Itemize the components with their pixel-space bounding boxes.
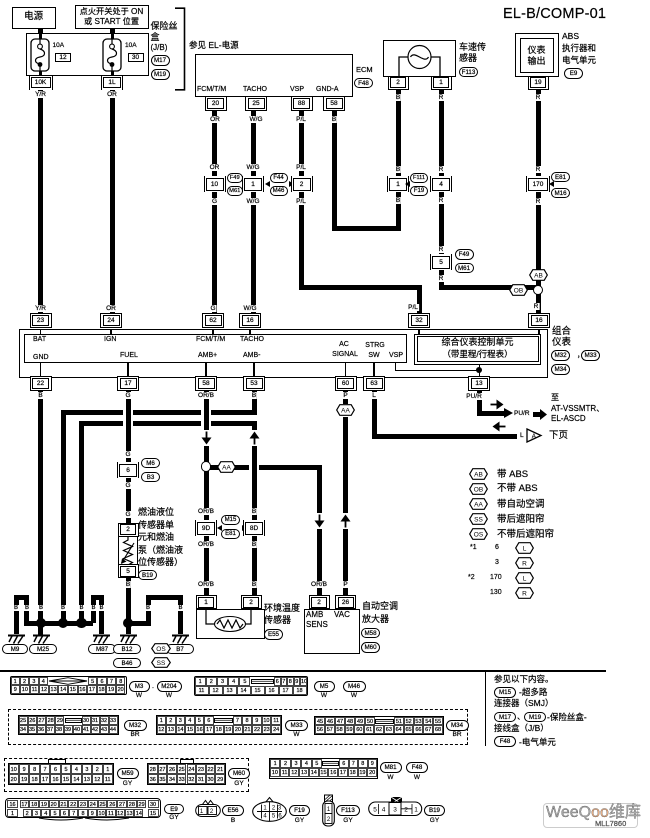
svg-text:5: 5: [373, 807, 377, 814]
connector grid M81/F48: [269, 758, 378, 779]
wire label W/G near meter: [243, 305, 258, 312]
connector bubble F113: [459, 67, 478, 78]
meter pin 23: [30, 313, 52, 328]
connector F113: [322, 794, 335, 827]
connector bubble M32: [124, 720, 147, 731]
label 保险丝盒(J/B): [151, 22, 178, 32]
wire OR fuse30 to meter pin24: [110, 89, 115, 314]
connector bubble M19 ref: [524, 712, 546, 723]
variant marker legend OB: [469, 483, 488, 495]
svg-text:AA: AA: [341, 407, 350, 414]
ambient temperature sensor box 环境温度传感器: [196, 609, 265, 639]
legend *2: [468, 574, 475, 582]
wire label R: [438, 94, 445, 101]
connector bubble M15 ref: [494, 687, 516, 698]
wire label Y/R near meter: [34, 305, 47, 312]
legend *1: [470, 544, 477, 552]
connector F19: [252, 796, 287, 822]
unified meter control unit box 综合仪表控制单元: [414, 334, 541, 365]
ECM pin 25: [245, 96, 267, 111]
connector bubble M46 ref: [343, 681, 366, 692]
connector bubble M34: [551, 364, 570, 375]
ground symbol M9: [7, 634, 26, 644]
connector bubble E81: [551, 172, 570, 183]
fuel level sensor unit box: [118, 536, 138, 578]
variant marker legend AA: [469, 498, 488, 510]
inline connector 1 (F111-F19): [387, 176, 409, 192]
svg-text:4: 4: [382, 807, 386, 814]
connector bubble M61 second: [455, 263, 474, 274]
wire label L: [520, 432, 524, 439]
wire label R below connector 4: [438, 197, 445, 204]
connector bubble M9: [2, 644, 28, 655]
wire label B: [90, 605, 96, 612]
wire label OR: [209, 164, 221, 171]
connector bubble B3: [141, 472, 160, 483]
connector bubble F19 ref: [289, 805, 310, 816]
wire OR/B AMB+ to ambient sensor: [204, 390, 209, 597]
variant marker AA with-auto-AC marker under pin 60: [336, 404, 355, 416]
auto A/C amplifier box: [304, 609, 360, 655]
ambient sensor pin 2: [241, 595, 262, 609]
ground junction 1: [36, 618, 46, 628]
ground symbol B7: [171, 634, 190, 644]
connector bubble M46: [270, 186, 288, 197]
wire label P: [342, 392, 348, 399]
connector bubble M17: [151, 55, 170, 66]
connector bubble F111: [410, 173, 428, 184]
meter pin 16 abs: [528, 313, 550, 328]
svg-text:R: R: [522, 590, 527, 597]
wire OR/G FCM signal: [212, 110, 217, 314]
wire label OR near meter: [105, 305, 117, 312]
wire B meter ground pin22: [38, 390, 43, 635]
connector bubble B7: [166, 644, 194, 655]
wire B ambient sensor return to ground: [79, 421, 84, 626]
wire label R below connector 5: [438, 275, 445, 282]
wire label R above connector 5: [438, 246, 445, 253]
label 自动空调放大器: [362, 602, 398, 612]
wire label B above connector 8D: [251, 508, 257, 515]
variant marker SS with-sunshade marker: [151, 657, 171, 668]
connector bubble M25: [29, 644, 57, 655]
svg-text:2: 2: [404, 807, 408, 814]
ECM pin 58: [323, 96, 345, 111]
connector bubble F48 ref: [494, 736, 516, 747]
variant marker legend L hex 2: [515, 572, 534, 584]
power source box 电源: [12, 7, 56, 29]
direction arrow down on AC amp branch: [314, 513, 325, 529]
wire OR/B branch to AC amp: [206, 465, 319, 470]
connector B19: [368, 796, 423, 817]
junction of ABS / non-ABS R wires: [533, 285, 543, 295]
connector bubble F49: [227, 173, 244, 184]
wire Y/R fuse12 to meter pin23: [38, 89, 43, 314]
connector bubble F48: [354, 78, 373, 89]
ground symbol B12: [119, 634, 138, 644]
fuse box J/B outline: [26, 33, 149, 76]
wire label L: [371, 392, 377, 399]
meter pin 13: [468, 376, 490, 391]
wire label R below connector 170: [535, 198, 542, 205]
svg-text:OS: OS: [474, 531, 484, 538]
ground symbol M87: [92, 634, 111, 644]
label 参见 EL-电源: [189, 41, 239, 50]
connector bubble M32: [551, 350, 570, 361]
meter pin 53: [243, 376, 265, 391]
ground bridge M87 loop: [91, 595, 96, 623]
wire label B: [98, 605, 104, 612]
connector bubble B19 ref: [424, 805, 445, 816]
connector bubble B19: [138, 570, 157, 581]
label ECM: [356, 66, 373, 74]
wire label PU/R destination: [514, 410, 530, 417]
wire label W/G: [246, 164, 261, 171]
junction AMB+ branch: [201, 461, 211, 471]
variant marker OB without-ABS marker: [509, 284, 528, 296]
wire G fuel gauge signal: [126, 390, 131, 525]
wire B ECM ground to speed sensor: [332, 110, 337, 229]
svg-text:AA: AA: [222, 464, 231, 471]
connector bubble E9 grid: [164, 804, 184, 815]
wire P/L vehicle speed signal: [299, 110, 304, 290]
wire label OR/B above AC amp pin 2: [310, 581, 328, 588]
label ABS 执行器和 电气单元: [562, 32, 579, 41]
wire label B below fuel sender: [125, 581, 131, 588]
connector grid M60: [180, 759, 194, 764]
svg-text:R: R: [522, 560, 527, 567]
ground bridge M9 loop: [14, 595, 19, 634]
variant marker AA with-auto-AC marker: [217, 461, 236, 473]
svg-text:L: L: [522, 575, 526, 582]
connector bubble B12: [113, 644, 141, 655]
variant marker AB with-ABS marker: [529, 269, 548, 281]
wire label OR/B: [197, 392, 215, 399]
wire label OR/B below connector 9D: [197, 541, 215, 548]
connector bubble M33: [581, 350, 600, 361]
variant marker legend SS: [469, 513, 488, 525]
connector bubble M5: [314, 681, 335, 692]
wire label B: [395, 94, 401, 101]
connector bubble M3: [129, 681, 150, 692]
meter internal pin stubs: [40, 330, 41, 334]
page connector A 下页: [526, 428, 548, 443]
connector bubble E56: [222, 805, 244, 816]
inline connector 4: [430, 176, 452, 192]
connector grid M34: [314, 716, 444, 736]
ambient sensor pin 1: [196, 595, 217, 609]
wire label B above sensor pin: [251, 581, 257, 588]
fuse 10A (No.30): [102, 38, 122, 72]
connector bubble M34: [446, 720, 469, 731]
variant marker legend R hex 1: [515, 557, 534, 569]
inline connector 6 (M6-B3): [117, 462, 139, 478]
connector bubble M60: [228, 768, 250, 779]
dashed box M59/M60 connectors: [4, 758, 249, 793]
connector bubble M19: [151, 69, 170, 80]
connector bubble F44: [270, 173, 288, 184]
speed sensor pin 2: [388, 76, 409, 90]
wire R ABS meter output: [536, 88, 541, 314]
connector bubble M6: [141, 458, 160, 469]
wire label OR: [209, 116, 221, 123]
watermark WeeQoo: [543, 803, 638, 828]
svg-text:A: A: [532, 434, 537, 441]
connector bubble F113 ref: [336, 805, 360, 816]
svg-text:AB: AB: [534, 272, 543, 279]
direction arrow left on L wire: [491, 421, 507, 432]
connector bubble M17 ref: [494, 712, 516, 723]
variant marker OS without-sunshade marker: [151, 643, 171, 654]
wire label P/L: [295, 116, 307, 123]
connector bubble M81: [380, 762, 402, 773]
wire label R: [535, 94, 542, 101]
wire label R near meter pin 16: [533, 303, 540, 310]
crossing gaps (no connection): [123, 409, 126, 415]
connector grid M59: [48, 759, 66, 764]
arrowhead PU/R: [504, 408, 513, 418]
wire B meter pin53 to ground: [252, 390, 257, 412]
connector bubble E81 second: [221, 529, 240, 540]
combination meter outer box 组合仪表: [19, 329, 549, 378]
wire label B: [24, 605, 30, 612]
direction arrow up on AC signal wire: [340, 513, 351, 529]
wire label P/L below connector: [295, 198, 307, 205]
svg-text:1: 1: [414, 807, 418, 814]
connector bubble M204: [157, 681, 182, 692]
meter pin 22: [30, 376, 52, 391]
svg-text:OB: OB: [474, 486, 483, 493]
connector bubble M87: [88, 644, 116, 655]
wire label Y/R: [34, 91, 47, 98]
vehicle speed sensor box 车速传感器: [383, 40, 456, 77]
wire W/G tacho signal: [251, 110, 256, 314]
connector bubble M58: [361, 628, 380, 639]
direction arrow right on PU/R wire: [489, 399, 505, 410]
wire label B: [145, 605, 151, 612]
connector bubble M16: [551, 188, 570, 199]
connector bubble M61: [227, 186, 244, 197]
connector bubble F48 grid: [406, 762, 428, 773]
wire stub ign to fuse box: [110, 29, 115, 35]
wire label G: [211, 198, 218, 205]
dashed box SMJ connectors: [8, 709, 468, 746]
wire PU/R to AT-VSSMTR: [477, 390, 482, 416]
wire P AC signal stub from pin 60: [343, 390, 348, 404]
inline connector 8D: [243, 520, 265, 536]
connector bubble B46: [113, 658, 141, 669]
wire label G above connector 6: [124, 451, 131, 458]
direction arrow down on AMB+: [201, 430, 212, 446]
fuel sender pin 5: [118, 564, 139, 578]
fuel sender pin 2: [118, 523, 139, 537]
connector bubble M60 amp: [361, 642, 380, 653]
svg-text:SS: SS: [474, 516, 483, 523]
text block divider: [485, 672, 486, 746]
title EL-B/COMP-01: [503, 7, 606, 23]
reference text block: [494, 675, 554, 684]
wire label B: [177, 605, 183, 612]
wire label B: [37, 392, 43, 399]
inline connector 2: [291, 176, 313, 192]
wire stub power to fuse box: [38, 29, 43, 35]
connector bubble F49 second: [455, 249, 474, 260]
connector grid M3/M204: [10, 676, 127, 696]
wire label P/L: [295, 164, 307, 171]
internal wire VSP to control unit to pin13: [395, 363, 396, 370]
ground bus horizontal: [24, 621, 93, 626]
wire label R above connector 170: [535, 166, 542, 173]
wire label R above connector 4: [438, 166, 445, 173]
connector grid E9: [5, 798, 161, 818]
connector bubble M15: [221, 515, 240, 526]
wire label PU/R: [465, 393, 483, 400]
wire label B: [251, 392, 257, 399]
ground junction 3: [76, 618, 86, 628]
label 燃油液位传感器单元和燃油泵（燃油液位传感器）: [138, 508, 174, 518]
variant marker legend AB: [469, 468, 488, 480]
inline connector 5 (F49-M61): [430, 254, 452, 270]
meter pin 24: [100, 313, 122, 328]
wire label OR/B above connector 9D: [197, 508, 215, 515]
wire label G near meter: [209, 305, 216, 312]
wire label OR/B above sensor pin 1: [197, 581, 215, 588]
connector grid M5/M46: [194, 676, 308, 696]
wire label OR: [106, 91, 118, 98]
wire label W/G: [249, 116, 264, 123]
bracket for fuse box group: [172, 7, 186, 91]
inline connector 170 (E81-M16): [526, 176, 550, 192]
wire R speed sensor signal: [439, 88, 444, 290]
wire label P above amp: [342, 581, 348, 588]
ignition switch box 点火开关处于ON或START位置: [75, 5, 149, 29]
ground symbol M25: [32, 634, 51, 644]
meter pin 63: [363, 376, 385, 391]
wire L to next page: [372, 390, 377, 439]
connector bubble F19: [410, 186, 428, 197]
ground junction fuel: [123, 618, 133, 628]
AC amp pin 2: [309, 595, 330, 609]
combination meter inner compartment: [24, 334, 407, 363]
fuse 10A (No.12): [30, 38, 50, 72]
connector bubble M33: [285, 720, 308, 731]
connector grid M33: [156, 715, 283, 736]
wire P AC signal to amp: [343, 417, 348, 597]
connector grid M32: [18, 715, 119, 736]
connector bubble E55: [264, 629, 283, 640]
wire label G below connector 6: [124, 482, 131, 489]
variant marker legend OS: [469, 528, 488, 540]
wire label B: [13, 605, 19, 612]
inline connector 1 (F44-M46): [242, 176, 264, 192]
label 组合仪表: [552, 327, 571, 337]
ground junction 2: [58, 618, 68, 628]
svg-text:AA: AA: [474, 501, 483, 508]
variant marker legend R hex 2: [515, 587, 534, 599]
svg-text:SS: SS: [157, 660, 166, 667]
svg-text:AB: AB: [474, 471, 483, 478]
wire label W/G below connector: [246, 198, 261, 205]
wire label B below connector: [395, 197, 401, 204]
svg-text:OS: OS: [156, 646, 166, 653]
wire label B above connector: [395, 166, 401, 173]
wire label B below connector 8D: [251, 541, 257, 548]
svg-text:OB: OB: [513, 287, 522, 294]
separator line: [0, 670, 606, 672]
connector 10K: [29, 76, 53, 90]
wire label G: [124, 392, 131, 399]
meter pin 32: [408, 313, 430, 328]
speed sensor pin 1: [431, 76, 452, 90]
label 环境温度传感器: [264, 604, 300, 614]
meter pin 58: [195, 376, 217, 391]
ECM box: [195, 54, 353, 97]
connector bubble M59: [117, 768, 139, 779]
connector bubble E9: [564, 68, 583, 79]
inline connector 10 (F49-M61): [204, 176, 226, 192]
meter pin 16 tacho: [239, 313, 261, 328]
svg-text:L: L: [522, 545, 526, 552]
wire label G above fuel sender pin 2: [124, 511, 131, 518]
connector E56: [195, 799, 221, 817]
ECM pin 88: [291, 96, 313, 111]
svg-text:3: 3: [393, 807, 397, 814]
ECM pin 20: [205, 96, 227, 111]
direction arrow up on sensor return: [249, 430, 260, 446]
AC amp pin 26: [335, 595, 356, 609]
internal junction: [476, 367, 482, 373]
meter pin 17: [117, 376, 139, 391]
wire label B: [78, 605, 84, 612]
wire label B: [331, 116, 337, 123]
ground bridge B7 loop: [128, 621, 148, 626]
inline connector 9D: [195, 520, 217, 536]
wire B fuel sender to ground: [126, 577, 131, 634]
meter pin 62: [202, 313, 224, 328]
wire label B: [60, 605, 66, 612]
wire label B: [38, 605, 44, 612]
wire label P/L near meter: [407, 304, 419, 311]
ABS pin 19: [528, 76, 549, 90]
variant marker legend L hex 1: [515, 542, 534, 554]
connector 1L: [101, 76, 123, 90]
meter pin 60: [335, 376, 357, 391]
ABS actuator unit box 仪表输出: [515, 33, 559, 77]
